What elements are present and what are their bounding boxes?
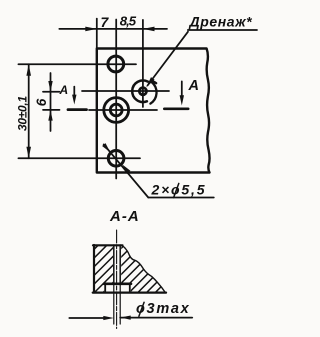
extension line hole left wall [113,284,115,324]
section outline bottom edge [93,291,166,293]
phi slash (5,5) [174,183,179,197]
section break curve [122,245,165,292]
section mark right bar [164,108,188,111]
arrowhead up to bottom tick (6) [48,110,52,121]
hole left wall [113,245,115,284]
drainage hole right bulge arc [150,81,156,103]
svg-text:8,5: 8,5 [120,14,137,29]
bottom hole [108,151,124,167]
shelf 2x5,5 [148,197,214,199]
drainage hole inner circle [139,88,146,95]
leader line Дренаж [148,32,189,86]
section centerline [116,230,118,329]
hole channel white cover [113,244,121,285]
hole right wall [119,245,121,284]
shelf Дренаж [188,29,257,31]
vertical centerline of drainage hole [142,20,144,107]
dimension phi3max left line [69,317,104,319]
arrowhead 2x5,5 upper-left [102,143,110,152]
horizontal centerline of drainage hole [82,90,169,92]
horizontal centerline of middle hole [89,109,157,111]
phi slash (3max) [139,302,144,316]
svg-text:30±0,1: 30±0,1 [16,96,30,131]
slot left edge [104,284,106,293]
leader line 2x5,5 [104,144,149,197]
drainage hole outer arc [132,80,148,102]
dimension 6 line [50,73,52,131]
svg-text:A: A [59,83,69,97]
arrowhead Дренаж [146,77,154,87]
section outline top edge [93,244,123,246]
slot white cover [104,283,131,292]
slot right edge [129,284,131,293]
svg-text:A-A: A-A [109,208,140,225]
svg-text:6: 6 [34,98,49,106]
plate outline [97,49,210,173]
dimension phi3max right line [120,317,192,319]
arrowhead up (30) [26,64,31,76]
horizontal centerline of bottom hole / extension of 30-dim [18,157,140,159]
arrowhead 2x5,5 lower-right [122,165,130,174]
arrowhead right (8,5) [143,27,155,32]
horizontal centerline of top hole / extension of 30-dim [18,63,136,65]
arrowhead left (7) [85,27,97,32]
tick top (6) [43,91,60,93]
section outline left edge [93,245,95,293]
arrowhead down to top tick (6) [48,81,52,92]
middle hole inner circle [110,104,122,116]
dimension line 7 / 8,5 [59,28,167,30]
section mark left arrow [73,87,75,96]
extension line hole right wall [119,284,121,324]
svg-text:Дренаж*: Дренаж* [189,13,253,29]
tick bottom (6) [43,109,60,111]
extension line (plate left edge, above plate) [96,19,98,49]
svg-text:7: 7 [101,14,110,30]
hatching [49,243,213,294]
section mark left bar [68,108,87,111]
slot top edge [104,282,131,285]
dimension 30±0,1 line [28,64,30,158]
vertical centerline through the three holes [115,20,117,179]
svg-text:A: A [188,78,199,94]
arrowhead down (30) [26,147,31,159]
section mark right arrow [181,81,183,95]
top hole [108,56,124,72]
middle hole outer circle [104,98,129,123]
